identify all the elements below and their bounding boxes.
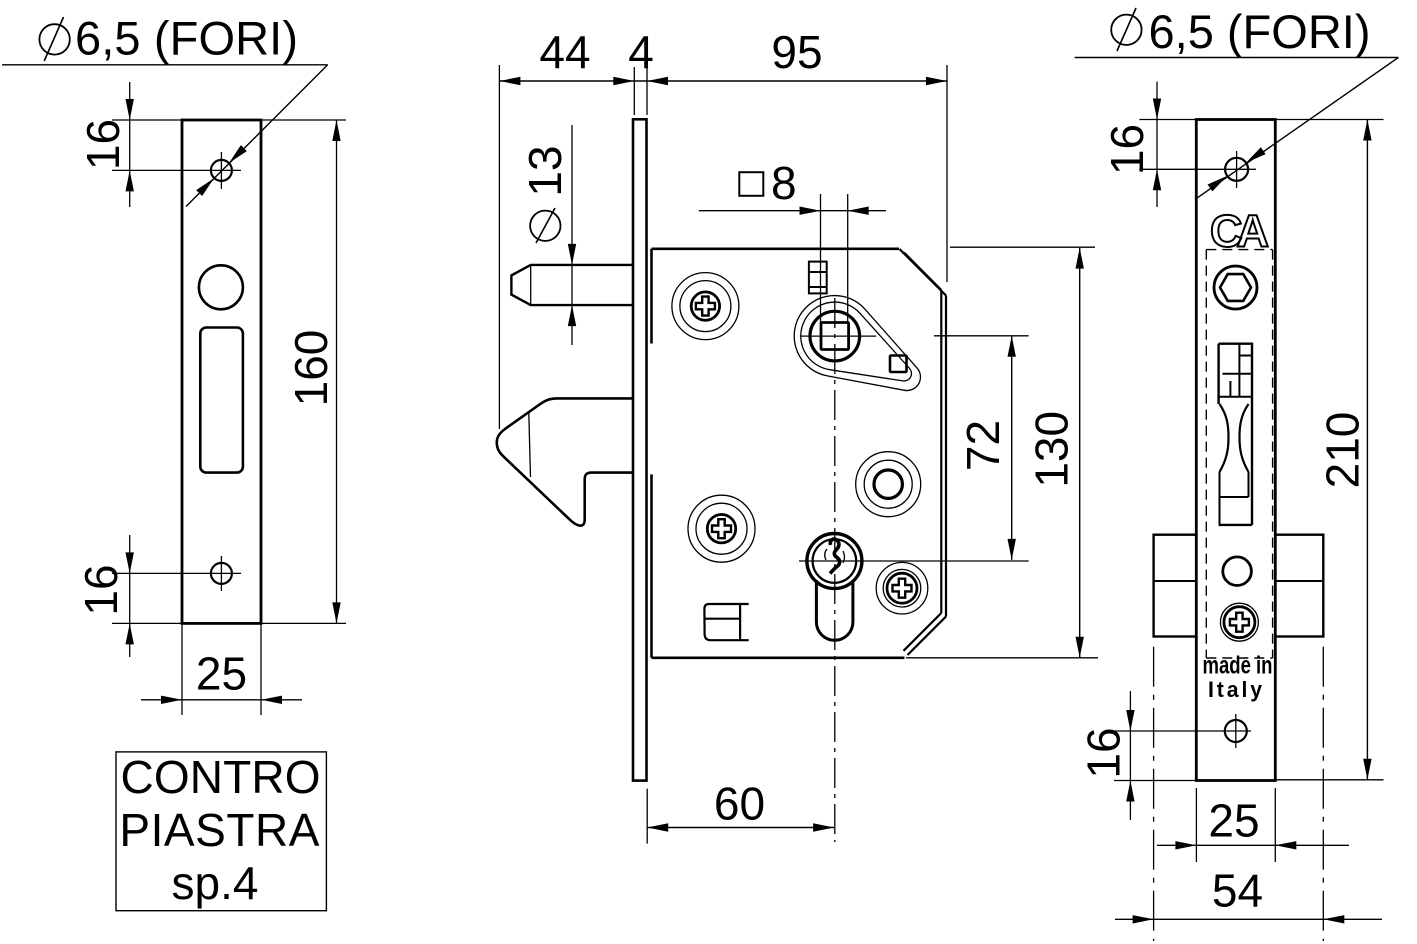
svg-text:sp.4: sp.4 bbox=[172, 857, 259, 909]
svg-text:13: 13 bbox=[519, 145, 571, 196]
svg-text:160: 160 bbox=[285, 330, 337, 407]
svg-text:CONTRO: CONTRO bbox=[121, 751, 321, 803]
svg-text:4: 4 bbox=[628, 26, 654, 78]
svg-text:made in: made in bbox=[1203, 652, 1273, 680]
svg-text:PIASTRA: PIASTRA bbox=[119, 804, 319, 856]
svg-text:25: 25 bbox=[196, 648, 247, 700]
svg-text:72: 72 bbox=[957, 420, 1009, 471]
svg-text:6,5 (FORI): 6,5 (FORI) bbox=[75, 12, 298, 65]
svg-text:16: 16 bbox=[1077, 727, 1129, 778]
svg-text:16: 16 bbox=[77, 119, 129, 170]
svg-text:54: 54 bbox=[1212, 865, 1263, 917]
svg-text:16: 16 bbox=[75, 564, 127, 615]
svg-text:130: 130 bbox=[1026, 411, 1078, 488]
svg-text:95: 95 bbox=[771, 26, 822, 78]
svg-text:6,5 (FORI): 6,5 (FORI) bbox=[1149, 5, 1371, 58]
svg-text:44: 44 bbox=[539, 26, 590, 78]
svg-text:Italy: Italy bbox=[1208, 677, 1265, 702]
svg-text:60: 60 bbox=[714, 777, 765, 829]
svg-text:CA: CA bbox=[1210, 206, 1268, 257]
svg-text:8: 8 bbox=[771, 157, 797, 209]
svg-text:210: 210 bbox=[1317, 412, 1369, 489]
svg-text:25: 25 bbox=[1208, 795, 1259, 847]
svg-text:16: 16 bbox=[1101, 124, 1153, 175]
